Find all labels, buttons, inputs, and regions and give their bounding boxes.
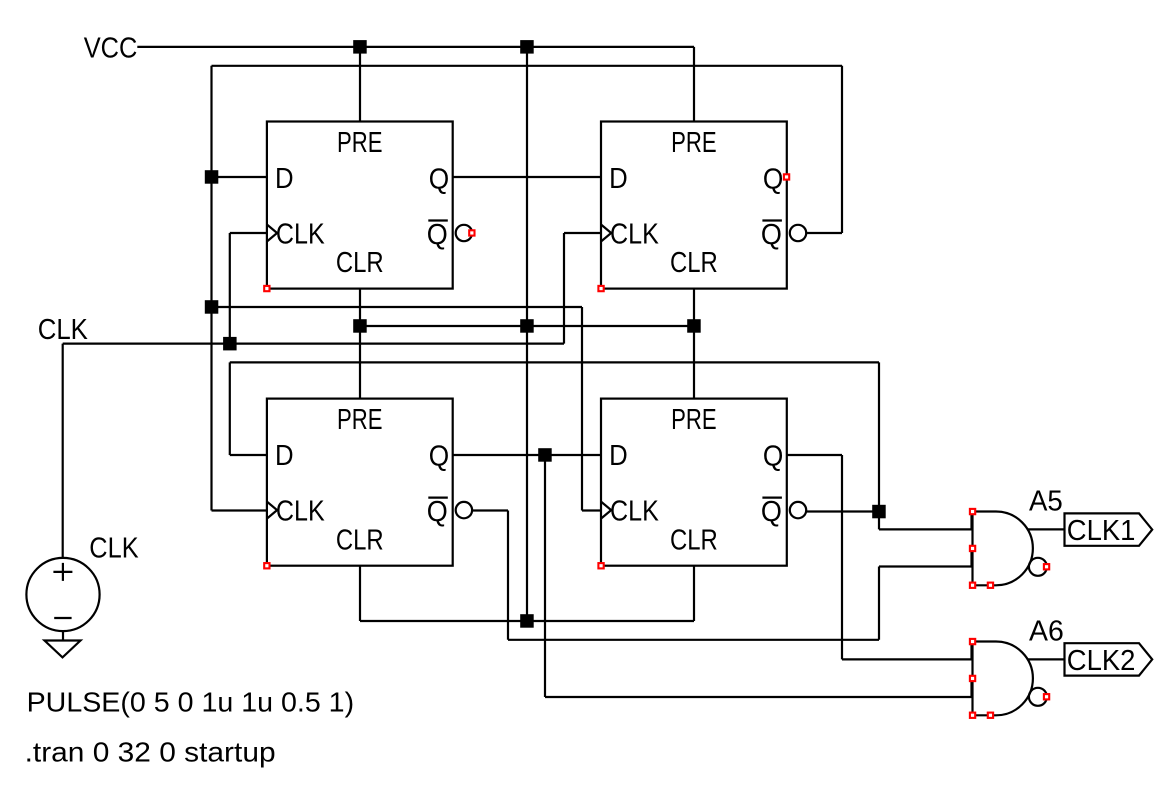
svg-text:PRE: PRE: [337, 127, 383, 159]
wire A5 input2 vertical: [878, 567, 880, 640]
wire U2 Qbar stub: [806, 232, 842, 234]
junction tie rail / U2 CLR: [687, 319, 701, 333]
U3 CLK edge triangle: [267, 502, 277, 519]
wire U3/U4 CLR tie: [360, 620, 694, 622]
wire U4 CLR drop: [693, 566, 695, 621]
wire U3 Q to U4 D: [453, 454, 601, 456]
wire U2 CLK drop to CLK net: [563, 233, 565, 344]
wire U1 CLK drop to CLK net: [229, 233, 231, 344]
svg-text:Q: Q: [761, 219, 782, 251]
wire U2 PRE drop: [693, 47, 695, 122]
junction VCC drop / CLR tie: [520, 614, 534, 628]
pin marker A5 in3: [970, 583, 975, 588]
pin marker A5 inverted output: [1044, 564, 1049, 569]
wire U1 CLK stub: [230, 232, 267, 234]
svg-text:D: D: [609, 163, 628, 195]
junction CLK net / U1 CLK: [223, 337, 237, 351]
junction tie rail / U1 CLR: [353, 319, 367, 333]
wire PRE/CLR tie rail: [360, 325, 694, 327]
svg-text:CLR: CLR: [670, 524, 718, 556]
wire net FF2Qbar horizontal to x582: [212, 306, 583, 308]
wire U4 Qbar to junction: [806, 510, 879, 512]
wire A6 pin2 riser: [970, 678, 972, 697]
junction tie rail / VCC drop: [520, 319, 534, 333]
pin marker A6 in1: [970, 639, 975, 644]
wire A6 input2 run: [545, 696, 972, 698]
wire V1 to ground: [62, 631, 64, 640]
wire FF2 Qbar feedback horizontal run: [212, 65, 843, 67]
pin marker A6 inverted output: [1044, 694, 1049, 699]
wire CLK net to source: [62, 344, 64, 558]
U2 CLK edge triangle: [601, 225, 611, 242]
wire U2 CLK stub: [564, 232, 601, 234]
pin marker U4 bottom-left: [598, 563, 603, 568]
pin marker U2 bottom-left: [598, 286, 603, 291]
wire U3 Qbar stub: [472, 509, 508, 511]
pin marker A5 in4: [988, 583, 993, 588]
wire U3 Q drop to A6: [544, 455, 546, 697]
svg-text:VCC: VCC: [84, 33, 138, 65]
wire U4 Qbar net vertical: [878, 362, 880, 529]
wire U1 CLR to U3 PRE: [359, 289, 361, 399]
svg-text:D: D: [275, 163, 294, 195]
svg-text:D: D: [609, 440, 628, 472]
pin marker U2 Q: [784, 174, 789, 179]
wire U2 CLR to U4 PRE: [693, 289, 695, 399]
pin marker U3 bottom-left: [264, 563, 269, 568]
svg-text:D: D: [275, 440, 294, 472]
svg-text:.tran 0 32 0 startup: .tran 0 32 0 startup: [25, 737, 276, 768]
svg-text:Q: Q: [763, 441, 783, 473]
wire A5 input2 run: [879, 565, 972, 567]
svg-text:Q: Q: [429, 164, 449, 196]
svg-text:CLR: CLR: [336, 247, 384, 279]
pin marker U1 Qbar: [469, 230, 474, 235]
NAND gate A6 body: [973, 642, 1033, 716]
pin marker U1 bottom-left: [264, 286, 269, 291]
wire A5 input1 run: [879, 528, 972, 530]
D flip-flop U1 body: [267, 122, 453, 289]
U2 Qbar bubble: [790, 225, 806, 241]
U1 CLK edge triangle: [267, 225, 277, 242]
wire VCC rail: [137, 46, 694, 48]
NAND gate A5 body: [973, 512, 1033, 586]
D flip-flop U2 body: [601, 122, 787, 289]
D flip-flop U3 body: [267, 399, 453, 566]
svg-text:Q: Q: [761, 496, 782, 528]
svg-text:PRE: PRE: [337, 404, 383, 436]
pin marker A5 in2: [970, 546, 975, 551]
wire U2 Qbar riser: [841, 66, 843, 233]
A5 output bubble: [1029, 558, 1047, 576]
wire U3 Qbar drop: [507, 511, 509, 640]
U4 Qbar bubble: [790, 502, 806, 518]
wire A6 input1 run: [842, 658, 972, 660]
wire U1 D input: [212, 176, 267, 178]
V1 plus sign: [53, 563, 72, 581]
svg-text:CLK2: CLK2: [1067, 645, 1136, 677]
wire U4 CLK stub: [582, 509, 601, 511]
wire U3 D input stub: [230, 454, 267, 456]
wire A6 output to flag: [1028, 658, 1065, 660]
junction VCC / U1 PRE: [353, 40, 367, 54]
svg-text:A6: A6: [1029, 616, 1064, 648]
svg-text:CLR: CLR: [336, 524, 384, 556]
ground symbol: [45, 641, 81, 658]
wire CLK net horizontal: [63, 343, 564, 345]
junction U1 D / feedback: [205, 170, 219, 184]
svg-text:CLK: CLK: [610, 496, 659, 528]
svg-text:CLK: CLK: [38, 314, 89, 346]
D flip-flop U4 body: [601, 399, 787, 566]
A6 output bubble: [1029, 688, 1047, 706]
U1 Qbar bubble: [456, 225, 472, 241]
junction U3 Q net: [538, 448, 552, 462]
svg-text:Q: Q: [429, 441, 449, 473]
output flag CLK2: [1065, 643, 1153, 675]
svg-text:CLK: CLK: [276, 219, 325, 251]
svg-text:Q: Q: [427, 496, 448, 528]
svg-text:CLK: CLK: [276, 496, 325, 528]
pin marker A5 in1: [970, 509, 975, 514]
wire net FF2Qbar drop to U4 CLK: [581, 307, 583, 511]
svg-text:PULSE(0 5 0 1u 1u 0.5 1): PULSE(0 5 0 1u 1u 0.5 1): [27, 686, 355, 717]
svg-text:CLK1: CLK1: [1067, 515, 1136, 547]
wire U1 PRE drop: [359, 47, 361, 122]
output flag CLK1: [1065, 513, 1153, 545]
svg-text:CLR: CLR: [670, 247, 718, 279]
wire U3 Qbar to A5 input2 run: [508, 639, 879, 641]
wire U3 CLK stub: [212, 509, 267, 511]
pin marker A6 in3: [970, 713, 975, 718]
svg-text:PRE: PRE: [671, 404, 717, 436]
wire U3 D drop: [229, 362, 231, 455]
wire U3 D / U4 Qbar net horizontal: [230, 361, 879, 363]
svg-text:CLK: CLK: [89, 533, 139, 565]
junction feedback net: [205, 300, 219, 314]
wire FF2 Qbar feedback vertical: [210, 66, 212, 511]
svg-text:CLK: CLK: [610, 219, 659, 251]
svg-text:PRE: PRE: [671, 127, 717, 159]
U3 Qbar bubble: [456, 502, 472, 518]
junction VCC / vertical drop: [520, 40, 534, 54]
wire U4 Q drop to A6: [841, 455, 843, 659]
wire A6 pin1 riser: [970, 642, 972, 660]
wire A5 output to flag: [1028, 528, 1065, 530]
U4 CLK edge triangle: [601, 502, 611, 519]
pin marker A6 in2: [970, 676, 975, 681]
voltage source V1 body: [26, 558, 99, 631]
svg-text:Q: Q: [763, 164, 783, 196]
wire U1 Q to U2 D: [453, 176, 601, 178]
wire A5 pin1 riser: [970, 512, 972, 530]
wire U3 CLR drop: [359, 566, 361, 621]
wire VCC vertical drop: [526, 47, 528, 621]
wire U4 Q stub: [787, 454, 843, 456]
svg-text:Q: Q: [427, 219, 448, 251]
V1 minus sign: [54, 617, 71, 619]
wire A5 pin2 riser: [970, 548, 972, 566]
pin marker A6 in4: [988, 713, 993, 718]
junction U4 Qbar net: [872, 505, 886, 519]
svg-text:A5: A5: [1029, 486, 1063, 518]
